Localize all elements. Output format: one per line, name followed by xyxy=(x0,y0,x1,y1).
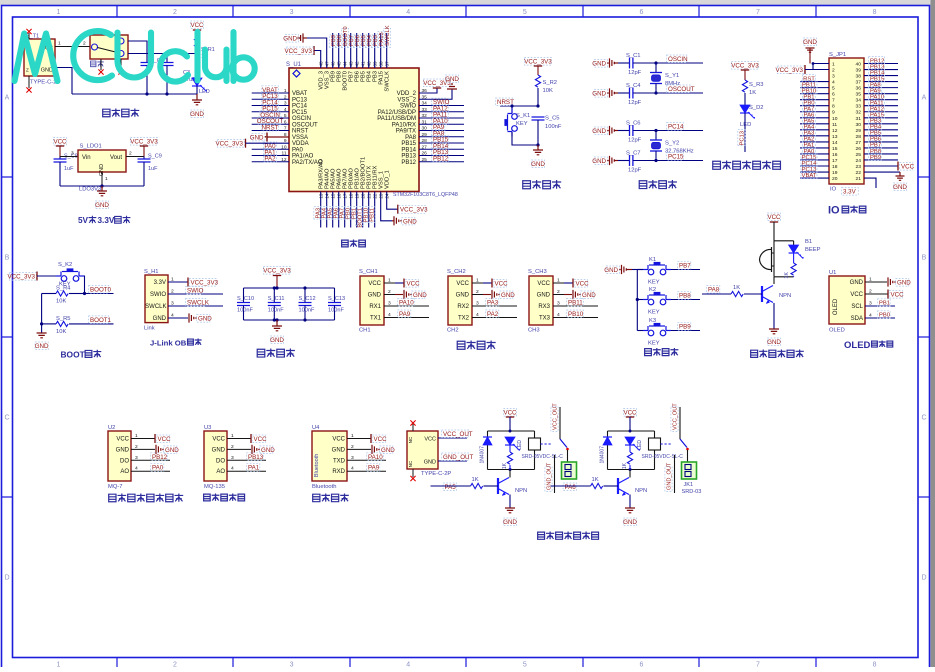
svg-text:PA8: PA8 xyxy=(708,287,720,294)
svg-text:10: 10 xyxy=(832,116,838,122)
crystal S_Y2 32.768KHz xyxy=(650,131,694,161)
svg-text:GND: GND xyxy=(501,292,515,299)
header right pin numbers xyxy=(856,62,862,183)
title 蓝牙模块 xyxy=(313,494,320,501)
net label PA6 xyxy=(563,483,576,491)
wire xyxy=(800,99,829,101)
net label PA12 xyxy=(869,105,885,112)
svg-text:VCC: VCC xyxy=(891,292,905,299)
svg-text:GND: GND xyxy=(413,292,427,299)
svg-text:VCC: VCC xyxy=(374,436,388,443)
svg-text:36: 36 xyxy=(856,86,862,92)
svg-text:2: 2 xyxy=(83,41,86,47)
svg-text:TYPE-C-2P: TYPE-C-2P xyxy=(421,471,451,477)
net label PB1 (rotated) xyxy=(350,207,358,220)
ground GND (relay driver) xyxy=(623,508,637,526)
net label PB9 (rotated) xyxy=(329,35,337,48)
svg-text:PB0: PB0 xyxy=(879,313,890,319)
svg-text:VCC: VCC xyxy=(53,139,67,146)
svg-text:3: 3 xyxy=(290,9,294,16)
svg-text:1N4007: 1N4007 xyxy=(480,446,486,464)
chip bottom pin names (rotated) xyxy=(319,157,391,189)
resistor S_R5 10K xyxy=(42,316,114,335)
svg-text:GND: GND xyxy=(537,293,551,299)
wire xyxy=(864,117,898,119)
power port VCC xyxy=(190,21,204,35)
wire module pin3 xyxy=(131,459,170,461)
wire pin2 GND xyxy=(553,294,572,296)
svg-text:K3: K3 xyxy=(649,318,656,324)
svg-text:OLED: OLED xyxy=(829,328,845,334)
title 一氧化碳检测模块 xyxy=(109,494,116,502)
resistor 1K (alarm base) xyxy=(731,285,762,297)
svg-text:VCC: VCC xyxy=(456,281,469,287)
capacitor S_C4 12pF xyxy=(618,83,703,106)
power port VCC (module) xyxy=(251,434,267,443)
capacitor S_C11 100nF xyxy=(268,288,285,320)
svg-text:6: 6 xyxy=(639,662,643,668)
svg-text:S_R3: S_R3 xyxy=(749,82,764,88)
junction xyxy=(629,468,632,471)
svg-text:VCC: VCC xyxy=(623,410,637,417)
wire VDD_2 to VCC_3V3 xyxy=(419,88,437,93)
svg-text:3: 3 xyxy=(832,74,835,80)
svg-text:9: 9 xyxy=(832,110,835,116)
net label PB7 xyxy=(869,141,882,148)
svg-text:PA2: PA2 xyxy=(264,156,276,163)
svg-text:3: 3 xyxy=(290,662,294,668)
relay driver frame wires xyxy=(608,431,655,470)
power GND (OLED) xyxy=(888,277,911,286)
module U4 Bluetooth xyxy=(312,425,347,490)
power GND xyxy=(492,290,515,299)
power GND at pin 8 VSSA xyxy=(250,133,289,142)
main MCU S_U1 STM32F103C8T6_LQFP48 xyxy=(286,62,458,198)
module pin numbers xyxy=(351,433,354,472)
svg-text:12pF: 12pF xyxy=(628,70,642,76)
ground GND (filter) xyxy=(270,320,284,344)
svg-text:1K: 1K xyxy=(502,462,508,469)
capacitor S_C6 12pF xyxy=(618,121,703,144)
wire key row xyxy=(637,330,700,332)
svg-text:S_C12: S_C12 xyxy=(299,296,316,302)
svg-text:PC15: PC15 xyxy=(292,110,308,116)
wire xyxy=(320,192,322,228)
net label PB12 xyxy=(432,154,449,162)
power port VCC (relay driver) xyxy=(623,409,637,432)
net label PB10 xyxy=(567,310,584,318)
wire module pin4 xyxy=(347,470,386,472)
net label PB5 xyxy=(869,129,882,136)
svg-text:GND: GND xyxy=(190,111,204,118)
svg-text:GND: GND xyxy=(767,339,781,346)
wire pin3 SWCLK xyxy=(168,305,223,307)
wire xyxy=(362,33,364,68)
svg-text:GND: GND xyxy=(850,280,864,286)
wire xyxy=(362,192,364,228)
net label PB1 xyxy=(803,93,816,100)
junction xyxy=(100,184,103,187)
title 5V转3.3V电路 xyxy=(78,216,130,225)
net label PB10 xyxy=(801,87,817,94)
svg-text:S_C4: S_C4 xyxy=(626,83,641,89)
svg-text:BOOT0: BOOT0 xyxy=(90,287,112,294)
net label PC15 xyxy=(801,153,817,160)
net label PA9 xyxy=(398,310,411,318)
net label PB10 (rotated) xyxy=(362,207,370,223)
power GND (module) xyxy=(156,445,179,454)
svg-text:KEY: KEY xyxy=(648,341,660,347)
svg-text:VSS_2: VSS_2 xyxy=(397,97,416,103)
power port VCC (alarm) xyxy=(767,213,781,241)
power port VCC_3V3 (J-Link) xyxy=(188,278,219,287)
net label PA7 xyxy=(803,105,816,112)
wire xyxy=(864,69,898,71)
svg-text:VBAT: VBAT xyxy=(292,91,308,97)
svg-text:C: C xyxy=(4,415,9,422)
wire GND_OUT xyxy=(438,460,467,462)
connector T1 TYPE-C-2P xyxy=(24,34,60,86)
svg-text:S_H1: S_H1 xyxy=(144,269,159,275)
title OLED显示屏 xyxy=(844,340,893,351)
wire module VCC xyxy=(227,438,251,440)
capacitor C3 xyxy=(161,54,197,95)
svg-text:GND: GND xyxy=(198,316,212,323)
svg-text:GND: GND xyxy=(531,161,545,168)
svg-text:VCC_OUT: VCC_OUT xyxy=(553,403,559,430)
wire left bus down xyxy=(41,294,43,334)
svg-text:S_K2: S_K2 xyxy=(58,262,72,268)
wire xyxy=(864,135,898,137)
junction xyxy=(273,286,276,289)
no-connect X on T1 bottom pin xyxy=(26,87,31,92)
net label PB13 xyxy=(432,148,449,156)
svg-text:22: 22 xyxy=(856,170,862,176)
net label PB8 xyxy=(678,292,691,300)
OLED pin numbers xyxy=(869,277,872,319)
title 继电器控制电路 xyxy=(538,532,545,539)
title IO拓展口 xyxy=(828,205,866,217)
net label PA10 xyxy=(432,117,449,125)
net label PB0 (rotated) xyxy=(344,207,352,220)
key K1 KEY xyxy=(643,257,671,286)
junction xyxy=(40,322,43,325)
svg-text:100nF: 100nF xyxy=(268,308,284,314)
power VCC_3V3 at pin 9 VDDA xyxy=(215,139,289,148)
svg-text:VCC_OUT: VCC_OUT xyxy=(443,431,473,438)
svg-text:GND: GND xyxy=(592,128,606,135)
wire xyxy=(252,105,289,107)
regulator S_LDO1 LDO3V3 xyxy=(78,144,126,193)
chip left pin numbers xyxy=(281,88,287,163)
net label PA5 xyxy=(443,483,456,491)
svg-text:12pF: 12pF xyxy=(628,138,642,144)
svg-text:39: 39 xyxy=(856,68,862,74)
resistor S_R3 1K xyxy=(742,80,763,105)
no-connect X mark xyxy=(410,420,415,425)
wire xyxy=(800,153,829,155)
relay switch xyxy=(560,407,569,462)
svg-text:VDDA: VDDA xyxy=(292,141,309,147)
svg-text:VBAT: VBAT xyxy=(802,173,817,179)
svg-text:6: 6 xyxy=(639,9,643,16)
wire VDD_3 to VCC_3V3 left xyxy=(314,51,321,69)
svg-text:CH2: CH2 xyxy=(447,328,459,334)
svg-text:12: 12 xyxy=(832,128,838,134)
junction xyxy=(303,318,306,321)
net label PB4 (rotated) xyxy=(365,34,373,47)
power GND above header xyxy=(803,38,817,64)
wire T1 GND down to rail xyxy=(55,68,72,95)
wire VDD_1 to VCC_3V3 xyxy=(387,192,398,210)
net label PA5 xyxy=(803,117,816,124)
svg-text:PA10: PA10 xyxy=(368,454,383,461)
svg-text:PA10: PA10 xyxy=(399,300,414,307)
svg-text:VCC_3V3: VCC_3V3 xyxy=(775,67,803,74)
title 按键电路 xyxy=(645,349,652,356)
title 程序运行指示灯 xyxy=(713,161,721,169)
svg-text:OLED: OLED xyxy=(844,340,871,351)
svg-text:S_C6: S_C6 xyxy=(626,121,641,127)
power rail wire xyxy=(72,93,197,95)
wire pin1 to VCC_3V3 xyxy=(168,281,188,283)
svg-text:CH1: CH1 xyxy=(359,328,371,334)
svg-text:VCC_3V3: VCC_3V3 xyxy=(191,280,219,287)
wire pin1 VCC xyxy=(384,282,404,284)
svg-text:100nF: 100nF xyxy=(545,124,562,130)
svg-text:VCC: VCC xyxy=(190,22,204,29)
wire NRST row xyxy=(500,105,538,107)
net label PA1 xyxy=(803,141,816,148)
svg-text:35: 35 xyxy=(856,92,862,98)
net label PA15 (rotated) xyxy=(377,32,385,48)
wire xyxy=(344,33,346,68)
net label OSCIN xyxy=(667,55,687,63)
svg-text:PA0: PA0 xyxy=(292,147,304,153)
wire xyxy=(800,87,829,89)
power port VCC (OLED) xyxy=(888,290,904,299)
svg-text:31: 31 xyxy=(856,116,862,122)
wire OLED SCL xyxy=(865,305,895,307)
svg-text:NRST: NRST xyxy=(292,129,309,135)
wire module pin4 xyxy=(131,470,170,472)
svg-text:RX2: RX2 xyxy=(457,304,469,310)
wire xyxy=(800,165,829,167)
wire xyxy=(864,87,898,89)
svg-text:LED: LED xyxy=(517,440,523,450)
svg-text:S_D2: S_D2 xyxy=(749,105,764,111)
svg-text:18: 18 xyxy=(832,164,838,170)
wire xyxy=(356,33,358,68)
wire base xyxy=(702,293,731,295)
svg-text:S_Y1: S_Y1 xyxy=(665,73,679,79)
wire pin3 xyxy=(553,305,598,307)
junction xyxy=(654,129,657,132)
relay driver frame wires xyxy=(488,431,535,470)
wire xyxy=(800,177,829,179)
net label PA2 xyxy=(803,135,816,142)
resistor 1K (relay LED) xyxy=(622,445,633,470)
wire xyxy=(864,111,898,113)
title 滤波电路 xyxy=(257,349,265,357)
svg-text:VCC_3V3: VCC_3V3 xyxy=(284,48,312,55)
module U3 MQ-135 xyxy=(204,425,227,490)
wire pin4 xyxy=(472,317,517,319)
svg-text:S_C9: S_C9 xyxy=(148,154,162,160)
wire xyxy=(252,92,289,94)
wire xyxy=(419,142,464,144)
svg-text:100nF: 100nF xyxy=(237,308,253,314)
wire xyxy=(800,147,829,149)
wire module pin3 xyxy=(227,459,266,461)
wire xyxy=(864,81,898,83)
svg-text:PB11: PB11 xyxy=(370,208,376,222)
title J-Link OB接口 xyxy=(150,339,202,348)
power GND (module) xyxy=(252,445,275,454)
wire VCC_OUT xyxy=(438,437,467,439)
title 苯检测模块 xyxy=(204,494,211,501)
capacitor S_C8 1uF xyxy=(54,154,78,187)
header S_CH2 serial port xyxy=(447,269,472,334)
capacitor S_C1 12pF xyxy=(618,53,703,76)
net label PB14 xyxy=(432,142,449,150)
ground GND (BOOT) xyxy=(35,333,49,350)
svg-text:7: 7 xyxy=(832,98,835,104)
svg-text:100nF: 100nF xyxy=(299,308,315,314)
svg-text:VCC_OUT: VCC_OUT xyxy=(673,403,679,430)
svg-text:12pF: 12pF xyxy=(628,100,642,106)
net label VBAT xyxy=(801,171,817,178)
net label PA6 (rotated) xyxy=(332,207,340,220)
svg-text:6: 6 xyxy=(832,92,835,98)
svg-text:PB13: PB13 xyxy=(401,154,416,160)
svg-text:S_Y2: S_Y2 xyxy=(665,141,679,147)
svg-text:PB15: PB15 xyxy=(401,141,416,147)
svg-text:K1: K1 xyxy=(649,257,656,263)
net label PA9 xyxy=(432,123,445,131)
svg-text:PB14: PB14 xyxy=(401,147,416,153)
net label PA12 xyxy=(432,104,449,112)
svg-text:12pF: 12pF xyxy=(628,168,642,174)
svg-text:1N4007: 1N4007 xyxy=(600,446,606,464)
wire xyxy=(374,192,376,228)
resistor 1K (relay LED) xyxy=(502,445,513,470)
wire GND_OUT to terminal xyxy=(554,455,556,493)
svg-text:37: 37 xyxy=(856,80,862,86)
serial pin numbers xyxy=(476,278,479,319)
connector TYPE-C-2P (relay power) xyxy=(407,431,451,477)
net label PC13 xyxy=(262,92,279,100)
net label RST xyxy=(803,75,816,82)
net label PB3 xyxy=(869,117,882,124)
wire emitter to GND xyxy=(773,303,775,329)
header S_CH1 serial port xyxy=(359,269,384,334)
svg-text:RX3: RX3 xyxy=(538,304,550,310)
svg-text:GND: GND xyxy=(503,519,517,526)
svg-text:RX1: RX1 xyxy=(369,304,381,310)
junction xyxy=(145,92,148,95)
power port VCC (LDO input) xyxy=(53,138,67,157)
junction xyxy=(654,91,657,94)
net label SWIO xyxy=(432,98,449,106)
svg-text:PB12: PB12 xyxy=(401,160,416,166)
svg-text:OLED: OLED xyxy=(833,298,839,315)
net label VCC_OUT (rotated) xyxy=(551,403,559,432)
transistor NPN (relay PA6) xyxy=(618,478,647,496)
capacitor S_C7 12pF xyxy=(618,151,703,174)
wire LED to PC13 xyxy=(744,113,746,152)
power GND (S_C4 side) xyxy=(592,88,618,97)
wire GND_OUT to terminal xyxy=(674,455,676,493)
wire xyxy=(419,136,464,138)
svg-text:LED: LED xyxy=(740,122,751,128)
junction xyxy=(509,430,512,433)
svg-text:GND: GND xyxy=(95,202,109,209)
wire emitter to GND xyxy=(509,495,511,509)
ground GND (reset) xyxy=(531,145,545,168)
svg-text:13: 13 xyxy=(832,134,838,140)
module U2 MQ-7 xyxy=(108,425,131,490)
net label PC13 (rotated) xyxy=(738,130,746,146)
title BOOT电路 xyxy=(61,350,102,360)
net label PC13 xyxy=(801,165,817,172)
transistor NPN (relay PA5) xyxy=(498,478,527,496)
svg-text:PA9: PA9 xyxy=(399,311,411,318)
svg-text:LED: LED xyxy=(637,440,643,450)
wire xyxy=(419,130,464,132)
wire xyxy=(338,33,340,68)
svg-text:D: D xyxy=(921,575,926,582)
svg-text:D: D xyxy=(4,575,9,582)
wire pin1 VCC xyxy=(553,282,573,284)
pin stub top of T1 xyxy=(28,33,30,39)
svg-text:PB13: PB13 xyxy=(248,454,264,461)
svg-text:B1: B1 xyxy=(805,239,812,245)
power GND top-left of chip xyxy=(283,33,307,42)
svg-text:SWCLK: SWCLK xyxy=(145,304,166,310)
wire module pin4 xyxy=(227,470,266,472)
svg-text:VCC: VCC xyxy=(254,436,268,443)
junction xyxy=(165,52,168,55)
svg-text:PA10/RX: PA10/RX xyxy=(392,122,416,128)
wire xyxy=(864,105,898,107)
svg-text:SWIO: SWIO xyxy=(187,288,204,295)
svg-text:MQ-7: MQ-7 xyxy=(108,484,123,490)
svg-text:B: B xyxy=(5,255,10,262)
svg-text:VCC_3V3: VCC_3V3 xyxy=(7,274,35,281)
svg-text:KEY: KEY xyxy=(648,280,660,286)
wire xyxy=(864,153,898,155)
ground GND (alarm) xyxy=(767,329,781,346)
svg-text:IO: IO xyxy=(828,205,840,217)
svg-text:SWIO: SWIO xyxy=(150,292,166,298)
J-Link pin numbers xyxy=(171,277,174,319)
svg-text:1K: 1K xyxy=(472,477,479,483)
svg-text:PB9: PB9 xyxy=(870,155,881,161)
svg-text:OSCOUT: OSCOUT xyxy=(668,86,695,93)
net label PB12 xyxy=(869,57,885,64)
net label PC14 xyxy=(801,159,817,166)
wire xyxy=(332,192,334,228)
net label BOOT1 (rotated) xyxy=(356,207,364,228)
wire GND to key bus xyxy=(632,269,643,271)
svg-text:IO: IO xyxy=(830,187,837,193)
svg-text:VCC: VCC xyxy=(332,437,345,443)
power GND (S_C7 side) xyxy=(592,156,618,165)
svg-text:GND: GND xyxy=(250,134,264,141)
svg-text:S_C10: S_C10 xyxy=(237,296,254,302)
net label PC14 xyxy=(262,98,279,106)
